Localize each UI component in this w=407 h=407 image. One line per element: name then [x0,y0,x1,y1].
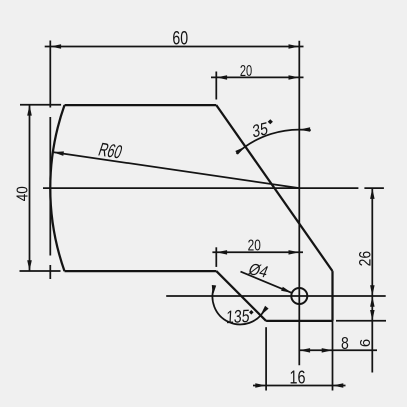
svg-text:60: 60 [172,29,188,50]
arrowhead 135-degree arc at centerline [212,285,216,296]
20-top dimension line [211,76,304,78]
20-bottom dimension line [212,251,303,253]
arrowhead 135-degree arc at chamfer [260,306,268,316]
svg-text:8: 8 [341,333,349,353]
hole horizontal centerline [166,295,386,297]
svg-text:20: 20 [240,63,252,80]
arrowhead 8 left [299,348,310,353]
degree diamond of 135 [249,310,254,315]
26 and 6 dimension line [371,188,373,372]
35-degree angle dimension arc [236,130,310,154]
main horizontal centerline [43,187,358,189]
arrowhead R60 leader [53,151,64,156]
arrowhead 60 left [50,44,61,49]
arrowhead 35-degree arc at slope [235,147,245,155]
svg-text:16: 16 [290,367,306,388]
R60 radius leader line [53,152,299,188]
arrowhead 20-top left [216,75,227,80]
16 dimension line [253,385,346,387]
arrowhead 6 top [370,296,375,307]
arrowhead 20-top right [289,75,300,80]
degree diamond of 35 [268,119,273,124]
centerline right segment (26-dim top extension) [364,187,384,189]
svg-text:135: 135 [226,306,250,327]
20-top left extension line [215,72,217,100]
arrowhead 35-degree arc at vertical [299,127,310,132]
40 dimension line [29,105,31,271]
6-dim bottom extension line [336,320,386,322]
arrowhead 26-bottom / 6-top [370,285,375,296]
part 45-degree chamfer edge [216,271,266,321]
arrowhead 20-bottom right [289,250,300,255]
arrowhead 16 right [333,383,344,388]
60 dimension line [45,46,304,48]
arrowhead 26 top [370,188,375,199]
135-degree angle dimension arc [212,286,265,325]
20-bottom left extension line [215,247,217,267]
16-dim left extension line [265,327,267,390]
arrowhead 40 top [27,105,32,116]
hole vertical centerline / extension line [298,41,300,366]
dashed left extension line of 60 dimension [49,41,51,280]
arrowhead 16 left [255,383,266,388]
8 dimension line [299,349,377,351]
part 35-degree sloped edge [216,105,332,271]
40-dim top extension line [20,104,61,106]
part right edge [331,271,333,321]
diameter-4 leader line [241,272,292,293]
svg-text:6: 6 [357,339,374,347]
arrowhead 60 right [289,44,300,49]
part left R60 arc edge [50,105,64,271]
arrowhead 8 right [322,348,333,353]
part top edge [65,104,217,106]
svg-text:35: 35 [252,118,269,142]
hole circle diameter 4 [291,288,307,304]
arrowhead diameter-4 leader [281,287,292,293]
svg-text:40: 40 [15,186,32,201]
svg-text:20: 20 [248,238,261,255]
arrowhead 6 bottom [370,310,375,321]
right edge extension line below part [332,321,334,391]
part bottom edge [266,320,332,322]
arrowhead 40 bottom [27,260,32,271]
arrowhead 20-bottom left [216,250,227,255]
svg-text:26: 26 [356,251,374,267]
40-dim bottom extension line [20,270,61,272]
part bottom-left edge [65,270,217,272]
